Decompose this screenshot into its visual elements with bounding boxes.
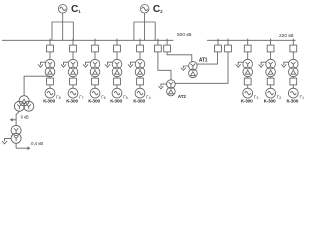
ground: transformer neutral	[61, 62, 69, 67]
svg-text:Г3: Г3	[254, 95, 259, 100]
wire: bus drop	[227, 39, 229, 46]
line 3 to bus	[72, 22, 74, 40]
wire: bus drop	[94, 39, 96, 46]
ground: 0.4 kV neutral	[2, 138, 11, 144]
wire	[270, 52, 272, 59]
svg-text:К-300: К-300	[241, 99, 253, 105]
ground: transformer neutral	[83, 62, 91, 67]
generator breaker Г8	[47, 78, 54, 85]
svg-text:Г4: Г4	[146, 95, 151, 100]
generator Г6	[90, 88, 100, 98]
wire: AT2 to 220 kV bus	[175, 52, 228, 83]
unit transformer of Г3 (Y/D)	[243, 59, 253, 76]
6 kV feeder arrow	[11, 119, 17, 122]
unit transformer of Г4 (Y/D)	[135, 59, 145, 76]
svg-text:0,4 кВ: 0,4 кВ	[31, 141, 43, 146]
generator breaker Г3	[244, 78, 251, 85]
wire	[15, 143, 17, 148]
generator breaker Г1	[290, 78, 297, 85]
wire: bus drop	[72, 39, 74, 46]
ground: transformer neutral	[259, 62, 267, 67]
wire: 6 kV feeder	[16, 111, 19, 125]
svg-text:6 кВ: 6 кВ	[21, 115, 29, 120]
AT1 500kV breaker	[164, 45, 171, 52]
autotransformer АТ1	[189, 62, 198, 78]
svg-text:АТ1: АТ1	[199, 58, 208, 64]
svg-text:Г1: Г1	[300, 95, 305, 100]
circuit breaker (500/220 kV side) unit Г4	[137, 45, 144, 52]
wire	[72, 77, 74, 78]
ground: transformer neutral	[281, 62, 289, 67]
generator breaker Г4	[137, 78, 144, 85]
unit transformer of Г7 (Y/D)	[68, 59, 78, 76]
auxiliary three-winding transformer (unit aux)	[14, 96, 33, 112]
circuit breaker (500/220 kV side) unit Г6	[92, 45, 99, 52]
system source С1	[58, 5, 67, 14]
wire: bus drop	[292, 39, 294, 46]
wire	[270, 85, 272, 88]
wire	[94, 85, 96, 88]
wire: bus drop	[157, 39, 159, 46]
line 1 to bus	[51, 22, 53, 40]
wire	[116, 52, 118, 59]
wire: bus drop	[247, 39, 249, 46]
unit transformer of Г6 (Y/D)	[90, 59, 100, 76]
wire: bus drop	[217, 39, 219, 46]
svg-text:К-300: К-300	[264, 99, 276, 105]
ground: transformer neutral	[128, 62, 136, 67]
svg-text:Г6: Г6	[101, 95, 106, 100]
svg-text:Г7: Г7	[79, 95, 84, 100]
wire: bus drop	[116, 39, 118, 46]
transformer 6/0.4 kV	[11, 125, 21, 143]
wire	[139, 85, 141, 88]
generator breaker Г7	[70, 78, 77, 85]
wire	[247, 52, 249, 59]
wire	[49, 85, 51, 88]
bus 220 kV	[207, 39, 296, 41]
wire	[292, 85, 294, 88]
generator Г8	[45, 88, 55, 98]
AT2 500kV breaker	[155, 45, 162, 52]
ground: АТ1 neutral	[181, 66, 189, 70]
wire	[62, 13, 64, 22]
wire: AT1 to 220 kV bus	[197, 52, 218, 64]
circuit breaker (500/220 kV side) unit Г3	[244, 45, 251, 52]
svg-text:Г2: Г2	[277, 95, 282, 100]
svg-text:Г8: Г8	[56, 95, 61, 100]
bus 500 kV	[2, 39, 173, 41]
svg-text:К-300: К-300	[110, 99, 122, 105]
wire: 500 kV side to AT1	[167, 52, 192, 62]
line 2 to bus	[62, 22, 64, 40]
wire	[270, 77, 272, 78]
wire	[292, 77, 294, 78]
wire	[94, 77, 96, 78]
wire: tap to auxiliary transformer	[24, 76, 50, 96]
generator breaker Г6	[92, 78, 99, 85]
circuit breaker (500/220 kV side) unit Г7	[70, 45, 77, 52]
wire	[116, 85, 118, 88]
wire	[247, 85, 249, 88]
generator Г5	[112, 88, 122, 98]
wire	[247, 77, 249, 78]
ground: transformer neutral	[38, 62, 46, 67]
generator Г3	[243, 88, 253, 98]
wire	[94, 52, 96, 59]
wire: bus drop	[166, 39, 168, 46]
svg-text:К-300: К-300	[43, 99, 55, 105]
generator Г4	[135, 88, 145, 98]
circuit breaker (500/220 kV side) unit Г8	[47, 45, 54, 52]
svg-text:Г5: Г5	[123, 95, 128, 100]
wire	[292, 52, 294, 59]
line 1 to bus	[133, 22, 135, 40]
circuit breaker (500/220 kV side) unit Г2	[267, 45, 274, 52]
circuit breaker (500/220 kV side) unit Г5	[114, 45, 121, 52]
ground: АТ2 neutral	[158, 84, 166, 89]
wire	[72, 52, 74, 59]
collector bar	[52, 21, 74, 23]
wire: bus drop	[139, 39, 141, 46]
wire	[144, 13, 146, 22]
unit transformer of Г2 (Y/D)	[266, 59, 276, 76]
generator breaker Г5	[114, 78, 121, 85]
svg-text:К-300: К-300	[66, 99, 78, 105]
0.4 kV feeder arrow	[16, 147, 29, 150]
wire	[139, 52, 141, 59]
autotransformer АТ2	[167, 80, 176, 96]
wire	[116, 77, 118, 78]
wire	[49, 52, 51, 59]
system source С2	[140, 5, 149, 14]
wire	[49, 77, 51, 78]
collector bar	[134, 21, 156, 23]
svg-text:К-300: К-300	[133, 99, 145, 105]
AT2 220kV breaker	[225, 45, 232, 52]
generator Г1	[288, 88, 298, 98]
wire: bus drop	[270, 39, 272, 46]
generator Г7	[68, 88, 78, 98]
unit transformer of Г8 (Y/D)	[45, 59, 55, 76]
AT1 220kV breaker	[215, 45, 222, 52]
unit transformer of Г1 (Y/D)	[289, 59, 299, 76]
circuit breaker (500/220 kV side) unit Г1	[290, 45, 297, 52]
ground: transformer neutral	[105, 62, 113, 67]
wire	[139, 77, 141, 78]
generator Г2	[266, 88, 276, 98]
svg-text:К-300: К-300	[88, 99, 100, 105]
ground: transformer neutral	[236, 62, 244, 67]
svg-text:К-300: К-300	[287, 99, 299, 105]
svg-text:500 кВ: 500 кВ	[177, 32, 192, 38]
wire: 500 kV side to AT2	[158, 52, 171, 80]
line 3 to bus	[154, 22, 156, 40]
line 2 to bus	[144, 22, 146, 40]
wire	[72, 85, 74, 88]
wire: bus drop	[49, 39, 51, 46]
svg-text:220 кВ: 220 кВ	[279, 33, 294, 39]
svg-text:АТ2: АТ2	[178, 94, 187, 99]
generator breaker Г2	[267, 78, 274, 85]
unit transformer of Г5 (Y/D)	[112, 59, 122, 76]
